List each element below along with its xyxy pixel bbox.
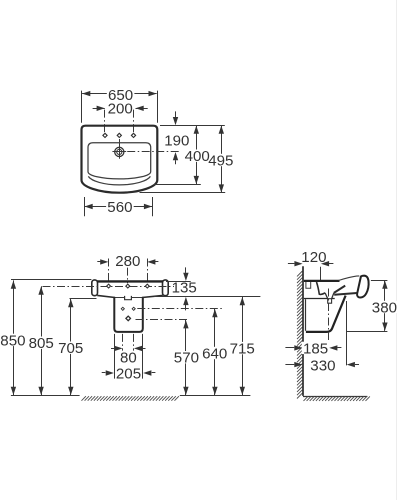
svg-text:570: 570 — [174, 350, 199, 367]
svg-text:120: 120 — [301, 249, 326, 266]
svg-text:200: 200 — [108, 101, 133, 118]
svg-text:640: 640 — [202, 345, 227, 362]
svg-text:185: 185 — [303, 340, 328, 357]
svg-text:850: 850 — [0, 332, 25, 349]
svg-text:380: 380 — [372, 299, 397, 316]
svg-text:80: 80 — [120, 350, 137, 367]
svg-text:805: 805 — [29, 335, 54, 352]
svg-text:705: 705 — [58, 340, 83, 357]
svg-text:205: 205 — [116, 365, 141, 382]
svg-text:135: 135 — [172, 279, 197, 296]
svg-text:400: 400 — [185, 148, 210, 165]
svg-text:560: 560 — [107, 199, 132, 216]
svg-text:715: 715 — [230, 340, 255, 357]
svg-text:495: 495 — [208, 152, 233, 169]
svg-text:280: 280 — [115, 253, 140, 270]
svg-text:330: 330 — [310, 357, 335, 374]
svg-text:190: 190 — [164, 132, 189, 149]
